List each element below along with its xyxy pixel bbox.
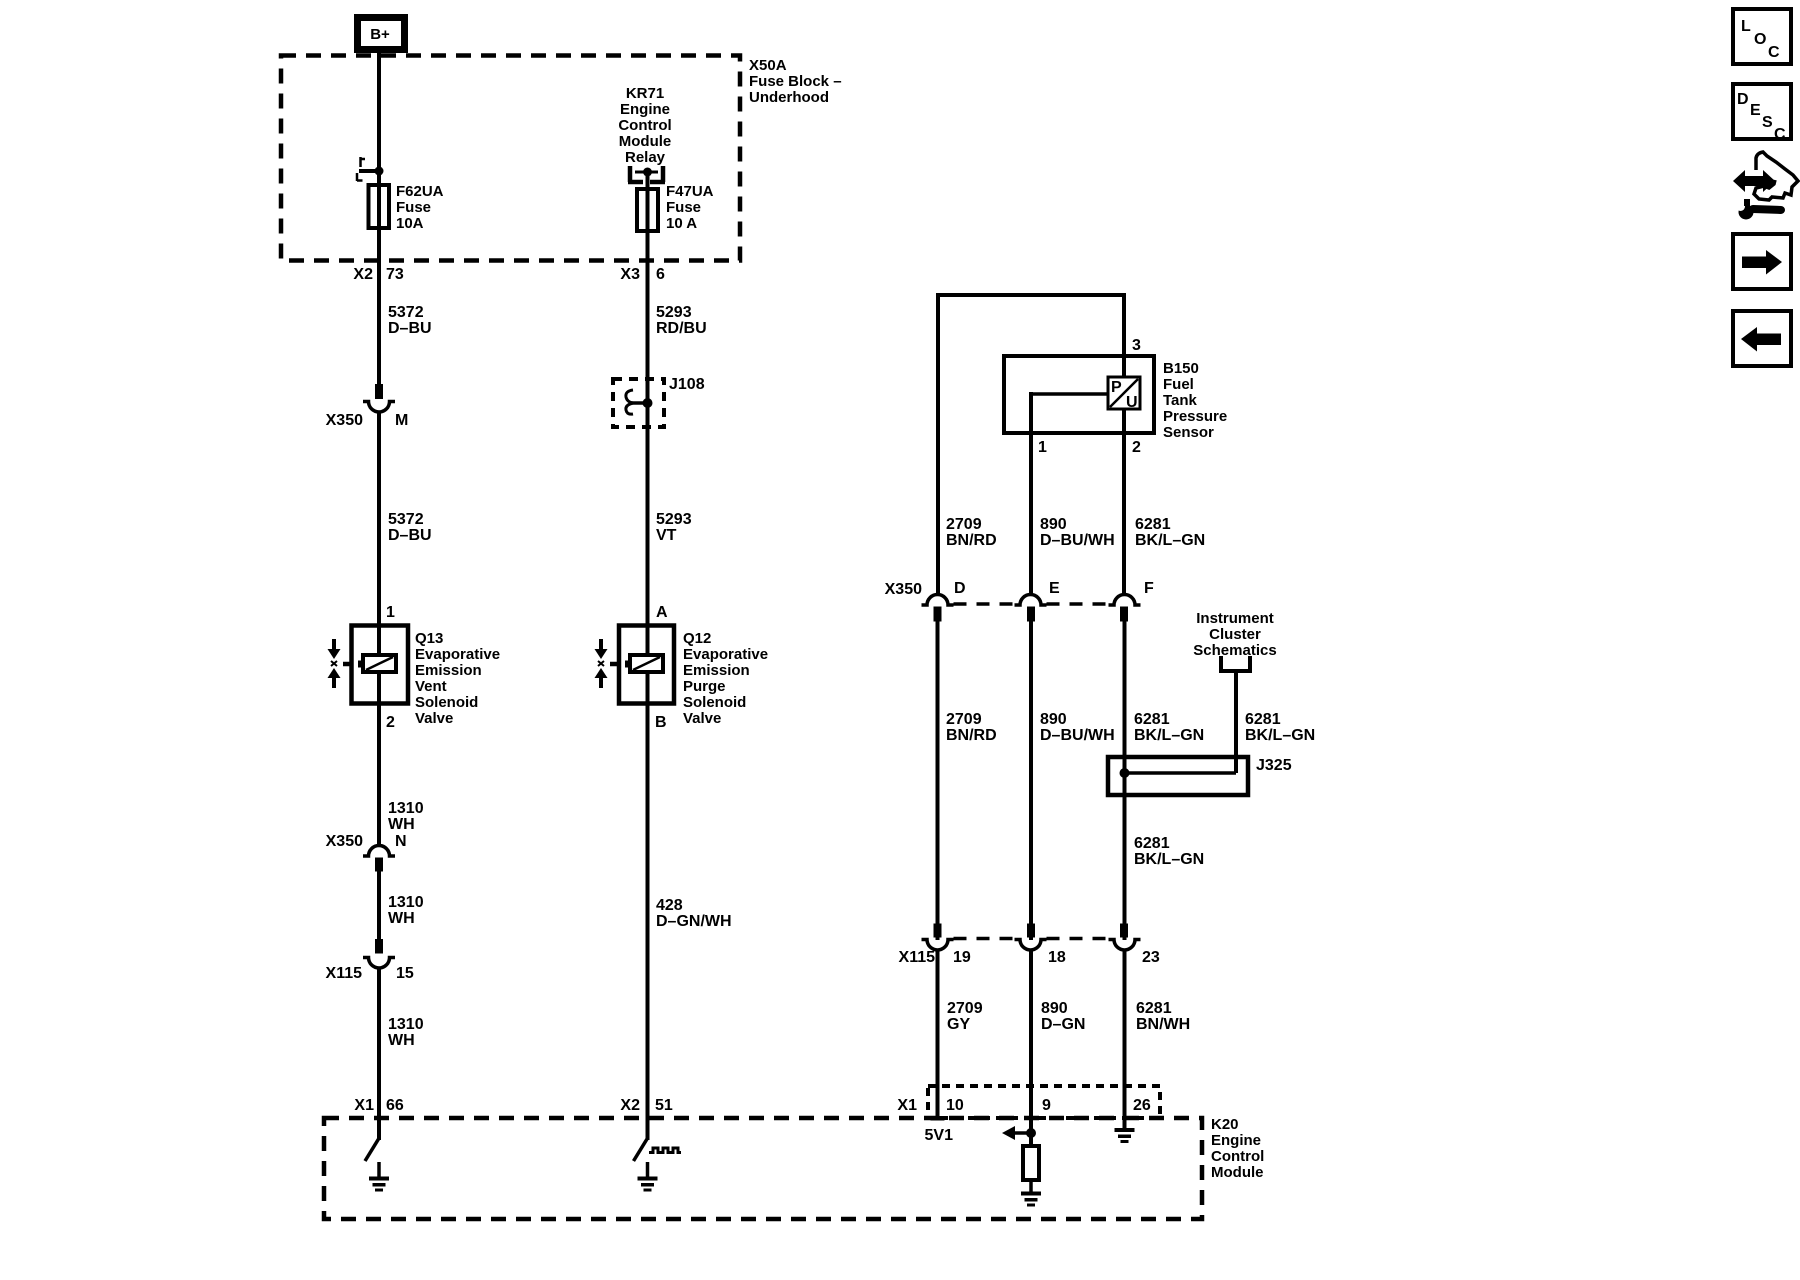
label X2 73 [353,266,403,283]
wire label 428 D-GN/WH [656,897,732,930]
wire X350 D to X115 19 [936,621,940,940]
off-page reference bracket [1221,656,1250,671]
svg-text:Vent: Vent [415,678,447,695]
connector X350 M [326,384,409,429]
svg-text:Q13: Q13 [415,630,443,647]
svg-text:5293: 5293 [656,304,692,321]
svg-text:WH: WH [388,1032,415,1049]
svg-text:Q12: Q12 [683,630,711,647]
solenoid Q12 Evaporative Emission Purge Solenoid Valve [595,626,675,704]
svg-text:BK/L–GN: BK/L–GN [1135,532,1205,549]
svg-text:Evaporative: Evaporative [683,646,768,663]
switch (driver) at pin 51 [634,1139,648,1161]
svg-text:Fuse: Fuse [396,199,431,216]
icon DESC button [1733,84,1791,143]
svg-text:3: 3 [1132,337,1141,354]
svg-text:6281: 6281 [1134,835,1170,852]
svg-text:GY: GY [947,1016,970,1033]
svg-text:6281: 6281 [1245,711,1281,728]
svg-text:D: D [1737,91,1749,108]
svg-text:BK/L–GN: BK/L–GN [1134,851,1204,868]
svg-text:2709: 2709 [946,711,982,728]
svg-text:X2: X2 [620,1097,640,1114]
label Q13 Evaporative Emission Vent Solenoid Valve [415,630,500,727]
svg-text:D–BU/WH: D–BU/WH [1040,532,1115,549]
wire X350 E to X115 18 [1029,621,1033,940]
wire label 890 D-BU/WH (middle) [1040,711,1115,744]
PWM signal symbol [649,1148,681,1153]
sensor B150 Fuel Tank Pressure Sensor [1004,356,1154,433]
wire sensor pin 1 to X350 E [1029,392,1033,596]
splice pack J325 [1108,757,1292,795]
svg-text:Fuel: Fuel [1163,376,1194,393]
switch (driver) at pin 66 [365,1139,379,1161]
svg-text:Emission: Emission [415,662,482,679]
svg-text:6281: 6281 [1136,1000,1172,1017]
power feed B+ [358,18,405,50]
ground inside ECM (left) [369,1162,389,1192]
svg-text:5372: 5372 [388,511,424,528]
wire label 6281 BN/WH [1136,1000,1190,1033]
resistor inside ECM [1023,1146,1039,1180]
wire X350 N to X115 15 [377,871,381,940]
wire label 5293 VT [656,511,692,544]
svg-text:26: 26 [1133,1097,1151,1114]
ground inside ECM (under Q12 driver) [638,1162,658,1192]
svg-text:Control: Control [618,117,671,134]
icon back arrow button [1733,311,1791,366]
svg-text:X3: X3 [620,266,640,283]
icon schematic jump (double arrow with wrench) [1733,152,1798,220]
wire label 6281 BK/L-GN (below J325) [1134,835,1204,868]
svg-text:10A: 10A [396,215,424,232]
svg-text:Evaporative: Evaporative [415,646,500,663]
svg-text:N: N [395,833,407,850]
svg-text:Underhood: Underhood [749,89,829,106]
svg-text:BN/RD: BN/RD [946,532,997,549]
label Instrument Cluster Schematics [1193,610,1276,659]
wire relay through fuse F47UA to Q12 [646,172,650,627]
connector X1 dotted box [928,1086,1160,1118]
svg-text:1: 1 [386,604,395,621]
splice J108 [613,376,705,427]
svg-text:Module: Module [619,133,672,150]
fuse F62UA [369,185,390,228]
wire Q12 to ECM [646,703,650,1140]
svg-text:K20: K20 [1211,1116,1239,1133]
svg-text:428: 428 [656,897,683,914]
svg-text:2709: 2709 [946,516,982,533]
wire label 5372 D-BU (upper) [388,304,432,337]
connector row X350 D E F [885,580,1154,622]
svg-text:U: U [1126,394,1138,411]
svg-text:X350: X350 [326,412,363,429]
wire Q13 to X350 N [377,703,381,846]
svg-text:19: 19 [953,949,971,966]
svg-text:10 A: 10 A [666,215,697,232]
wire label 2709 BN/RD (upper) [946,516,997,549]
svg-text:X2: X2 [353,266,373,283]
wire label 5372 D-BU (lower) [388,511,432,544]
svg-text:23: 23 [1142,949,1160,966]
icon LOC button [1733,9,1791,64]
svg-text:Fuse Block –: Fuse Block – [749,73,842,90]
svg-text:73: 73 [386,266,404,283]
wire label 1310 WH (upper) [388,800,424,833]
wire label 890 D-GN [1041,1000,1085,1033]
wire label 1310 WH (middle) [388,894,424,927]
svg-text:1310: 1310 [388,894,424,911]
svg-text:Engine: Engine [1211,1132,1261,1149]
wire sensor pin 3 drop [1122,293,1126,596]
svg-text:Pressure: Pressure [1163,408,1227,425]
svg-text:6: 6 [656,266,665,283]
wire X115 18 to X1 9 [1029,950,1033,1146]
wire label 1310 WH (lower) [388,1016,424,1049]
svg-text:2: 2 [386,714,395,731]
svg-text:X350: X350 [885,581,922,598]
svg-text:Schematics: Schematics [1193,642,1276,659]
svg-text:1310: 1310 [388,1016,424,1033]
solenoid Q13 Evaporative Emission Vent Solenoid Valve [328,626,409,704]
wire label 890 D-BU/WH (upper) [1040,516,1115,549]
wire X350 M to Q13 [377,412,381,627]
svg-text:F: F [1144,580,1154,597]
relay KR71 contact symbol [628,166,665,182]
connector row X115 19 18 23 [899,924,1160,967]
svg-text:B150: B150 [1163,360,1199,377]
ground inside ECM (under resistor) [1021,1180,1041,1207]
svg-text:D–BU: D–BU [388,320,432,337]
svg-text:D–GN/WH: D–GN/WH [656,913,732,930]
svg-text:890: 890 [1040,516,1067,533]
svg-text:2: 2 [1132,439,1141,456]
svg-text:5372: 5372 [388,304,424,321]
svg-text:S: S [1762,114,1773,131]
wire label 5293 RD/BU [656,304,707,337]
svg-text:A: A [656,604,668,621]
svg-text:Valve: Valve [683,710,721,727]
label X2 51 [620,1097,672,1114]
ground inside ECM (pin 26) [1115,1128,1135,1143]
label X3 6 [620,266,665,283]
label X1 66 [354,1097,403,1114]
svg-text:X115: X115 [326,965,363,982]
svg-text:9: 9 [1042,1097,1051,1114]
wire label 6281 BK/L-GN (middle left) [1134,711,1204,744]
svg-text:E: E [1049,580,1060,597]
svg-text:Cluster: Cluster [1209,626,1261,643]
svg-text:RD/BU: RD/BU [656,320,707,337]
svg-text:X1: X1 [354,1097,374,1114]
svg-text:KR71: KR71 [626,85,664,102]
icon forward arrow button [1733,234,1791,289]
svg-text:O: O [1754,31,1766,48]
svg-text:BK/L–GN: BK/L–GN [1245,727,1315,744]
label KR71 Engine Control Module Relay [618,85,671,166]
svg-text:M: M [395,412,408,429]
wire label 6281 BK/L-GN (middle right) [1245,711,1315,744]
wire X350 F through J325 to X115 23 [1123,621,1127,940]
svg-text:B: B [655,714,667,731]
svg-text:15: 15 [396,965,414,982]
svg-text:WH: WH [388,816,415,833]
svg-text:P: P [1111,379,1122,396]
svg-text:1: 1 [1038,439,1047,456]
wire X115 19 to X1 10 [936,950,940,1117]
svg-text:F47UA: F47UA [666,183,714,200]
connector X115 15 [326,939,414,982]
wire 5V reference feed (top horizontal) [936,293,1126,297]
connector X350 N [326,833,407,872]
svg-text:C: C [1774,126,1786,143]
svg-text:X50A: X50A [749,57,787,74]
wire X115 23 to X1 26 [1123,950,1127,1130]
svg-text:E: E [1750,102,1761,119]
svg-text:J325: J325 [1256,757,1292,774]
wire B+ to X350 M [377,52,381,385]
svg-text:2709: 2709 [947,1000,983,1017]
svg-text:Module: Module [1211,1164,1264,1181]
svg-text:Emission: Emission [683,662,750,679]
svg-text:5V1: 5V1 [925,1127,954,1144]
svg-text:D: D [954,580,966,597]
svg-text:VT: VT [656,527,677,544]
5V reference terminal 5V1 [925,1116,954,1144]
svg-text:6281: 6281 [1134,711,1170,728]
svg-text:X1: X1 [897,1097,917,1114]
svg-text:BK/L–GN: BK/L–GN [1134,727,1204,744]
fuse block X50A dashed box [281,56,740,261]
label K20 Engine Control Module [1211,1116,1264,1181]
label F62UA Fuse 10A [396,183,444,232]
svg-text:Tank: Tank [1163,392,1198,409]
svg-text:Solenoid: Solenoid [683,694,746,711]
svg-text:18: 18 [1048,949,1066,966]
ECM K20 dashed box [324,1118,1202,1219]
svg-text:5293: 5293 [656,511,692,528]
wire label 6281 BK/L-GN (upper) [1135,516,1205,549]
fuse F47UA [637,189,658,231]
signal tap arrow at pin 9 [1002,1126,1036,1140]
svg-text:890: 890 [1040,711,1067,728]
svg-text:Fuse: Fuse [666,199,701,216]
svg-text:51: 51 [655,1097,673,1114]
svg-text:X350: X350 [326,833,363,850]
svg-text:Sensor: Sensor [1163,424,1214,441]
svg-text:890: 890 [1041,1000,1068,1017]
svg-text:1310: 1310 [388,800,424,817]
svg-text:BN/WH: BN/WH [1136,1016,1190,1033]
label X50A Fuse Block - Underhood [749,57,842,106]
svg-text:6281: 6281 [1135,516,1171,533]
wire sensor feed down to X350 D [936,293,940,596]
wire instrument cluster to J325 [1234,671,1238,773]
svg-text:Engine: Engine [620,101,670,118]
label B150 Fuel Tank Pressure Sensor [1163,360,1227,441]
svg-text:D–GN: D–GN [1041,1016,1085,1033]
svg-text:Relay: Relay [625,149,666,166]
svg-text:D–BU/WH: D–BU/WH [1040,727,1115,744]
svg-text:Purge: Purge [683,678,726,695]
svg-text:Solenoid: Solenoid [415,694,478,711]
wire label 2709 GY [947,1000,983,1033]
svg-text:Instrument: Instrument [1196,610,1274,627]
label F47UA Fuse 10 A [666,183,714,232]
svg-text:Valve: Valve [415,710,453,727]
fuse tap clip at F62UA [357,157,384,181]
svg-text:B+: B+ [370,26,390,43]
svg-text:X115: X115 [899,949,936,966]
svg-text:F62UA: F62UA [396,183,444,200]
svg-text:66: 66 [386,1097,404,1114]
svg-text:Control: Control [1211,1148,1264,1165]
svg-text:10: 10 [946,1097,964,1114]
svg-text:D–BU: D–BU [388,527,432,544]
svg-text:BN/RD: BN/RD [946,727,997,744]
svg-text:WH: WH [388,910,415,927]
wire label 2709 BN/RD (middle) [946,711,997,744]
label Q12 Evaporative Emission Purge Solenoid Valve [683,630,768,727]
svg-text:J108: J108 [669,376,705,393]
svg-text:L: L [1741,18,1751,35]
svg-text:C: C [1768,44,1780,61]
wire X115 15 to ECM [377,968,381,1140]
